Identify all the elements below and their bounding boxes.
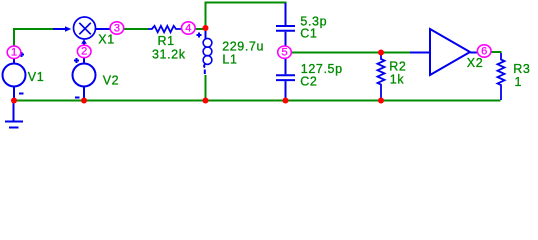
node 4	[182, 22, 196, 35]
wire node6 to R3 top corner	[490, 51, 502, 53]
svg-text:1: 1	[11, 47, 17, 59]
capacitor C1	[276, 3, 295, 46]
X1 input arrow bottom	[81, 39, 87, 44]
wire node5 to R2 junction to op-amp (mid bus)	[291, 52, 411, 54]
svg-text:X2: X2	[467, 56, 484, 70]
resistor R3	[498, 53, 505, 100]
voltage source V1	[3, 52, 26, 100]
svg-text:R3: R3	[513, 62, 530, 76]
junction dot R2 top	[378, 50, 384, 56]
svg-text:V2: V2	[103, 73, 120, 87]
wire node3 to R1	[123, 28, 148, 30]
node 2	[77, 45, 91, 58]
wire junction A up and over to C1 (top bus)	[206, 3, 286, 29]
svg-text:229.7u: 229.7u	[222, 40, 264, 54]
node 1	[7, 46, 21, 59]
node 6	[477, 45, 491, 58]
svg-text:R1: R1	[158, 34, 175, 48]
inductor L1	[197, 31, 212, 74]
voltage source V2	[73, 58, 96, 101]
svg-text:127.5p: 127.5p	[301, 62, 343, 76]
capacitor C2	[276, 59, 295, 101]
junction dot R2 bottom	[378, 98, 384, 104]
svg-text:L1: L1	[222, 53, 237, 67]
svg-text:31.2k: 31.2k	[152, 48, 186, 62]
junction dot A (R1/L1/C1)	[203, 25, 209, 31]
svg-text:C1: C1	[300, 26, 317, 40]
svg-text:X1: X1	[98, 33, 115, 47]
svg-text:2: 2	[81, 46, 87, 58]
node 3	[110, 22, 124, 35]
svg-text:1k: 1k	[390, 72, 405, 86]
wire L1 bottom to bus	[205, 75, 207, 100]
op-amp X2	[410, 29, 479, 75]
wire node4 to junction A	[194, 28, 206, 30]
junction dot V2 bottom	[81, 98, 87, 104]
svg-text:5: 5	[281, 47, 287, 59]
svg-text:1: 1	[515, 75, 523, 89]
svg-text:C2: C2	[300, 75, 317, 89]
wire node1 vertical riser	[13, 28, 15, 46]
svg-text:6: 6	[481, 45, 487, 57]
wire bottom ground bus	[13, 100, 501, 102]
svg-text:3: 3	[114, 22, 120, 34]
multiplier X1	[53, 17, 111, 46]
resistor R1	[148, 26, 182, 32]
svg-text:V1: V1	[28, 70, 45, 84]
X1 input arrow left	[65, 26, 71, 32]
svg-text:R2: R2	[389, 59, 406, 73]
node 5	[278, 46, 292, 59]
junction dot C2 bottom	[283, 98, 289, 104]
resistor R2	[378, 53, 385, 100]
junction dot L1 bottom	[203, 98, 209, 104]
junction dot ground/V1	[11, 98, 17, 104]
svg-text:4: 4	[185, 22, 191, 34]
wire node1 to X1 input (horizontal top-left)	[13, 28, 53, 30]
ground	[5, 101, 23, 128]
